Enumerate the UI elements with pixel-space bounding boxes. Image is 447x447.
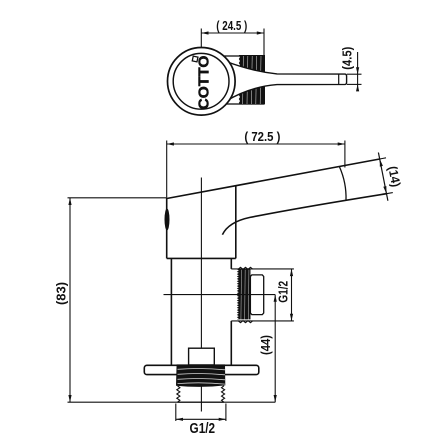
outlet center line	[164, 294, 276, 296]
dimension 14 extension ticks	[380, 158, 393, 194]
body left edge	[166, 198, 168, 258]
bottom thread dense block	[176, 364, 225, 387]
dimension 14 arrows	[380, 159, 387, 193]
dimension 44 arrows	[274, 295, 277, 403]
lever tip divider (top view)	[338, 74, 340, 84]
svg-text:( 72.5 ): ( 72.5 )	[244, 130, 280, 144]
lever end face / dim 14 line	[378, 153, 388, 201]
svg-text:(83): (83)	[55, 282, 69, 305]
flange plate	[144, 365, 258, 374]
vertical center line	[200, 178, 202, 412]
dimension G1/2 side arrows	[290, 269, 293, 321]
dimension G1/2 side dim line	[291, 269, 293, 321]
knob outer circle (top view)	[168, 48, 236, 116]
svg-text:( 24.5 ): ( 24.5 )	[216, 19, 247, 33]
svg-text:G1/2: G1/2	[277, 281, 291, 303]
body bottom edge	[167, 257, 236, 259]
svg-text:G1/2: G1/2	[190, 421, 216, 437]
neck right edge upper	[230, 258, 232, 269]
dimension 83 lines	[68, 198, 276, 402]
lever (top view)	[210, 61, 347, 101]
nut outline (top view)	[221, 56, 264, 104]
neck right edge lower	[230, 321, 232, 366]
dimension 72.5 dim line	[167, 141, 345, 198]
dimension 44 dim line	[274, 295, 276, 403]
svg-text:(4.5): (4.5)	[341, 47, 355, 70]
dimension 4.5 extension lines	[347, 52, 362, 90]
bottom thread bottom edge	[178, 401, 224, 403]
knob inner circle (top view)	[173, 53, 229, 109]
lever top edge (front view)	[167, 159, 380, 199]
dimension G1/2 bottom lines	[176, 404, 226, 422]
neck left edge	[170, 258, 172, 366]
outlet bottom outline / G1/2 bottom extension	[231, 320, 294, 322]
outlet threads	[237, 269, 251, 320]
outlet thread crest jags	[238, 267, 253, 269]
dimension G1/2 bottom arrows	[176, 418, 226, 421]
dimension 72.5 arrows	[167, 142, 345, 145]
lever bottom edge curve (front view)	[222, 194, 386, 235]
svg-text:(44): (44)	[259, 335, 273, 355]
lever transition arc	[340, 167, 347, 200]
outlet top outline / G1/2 top extension	[231, 268, 294, 270]
nut threads (top view)	[239, 55, 265, 104]
dimension 4.5 arrows	[356, 67, 359, 91]
dimension 24.5 arrows	[201, 31, 264, 34]
bottom thread zigzag left edge	[177, 386, 180, 402]
outlet cap	[250, 275, 263, 315]
index lens mark on body	[165, 209, 170, 231]
bottom thread zigzag right edge	[222, 386, 225, 402]
dimension 83 arrows	[68, 198, 71, 402]
body right edge	[235, 186, 237, 259]
knob small square detail	[192, 56, 198, 62]
tenon square on flange	[189, 348, 215, 365]
dimension 24.5 dim line	[201, 29, 264, 62]
svg-text:COTTO: COTTO	[195, 55, 212, 109]
